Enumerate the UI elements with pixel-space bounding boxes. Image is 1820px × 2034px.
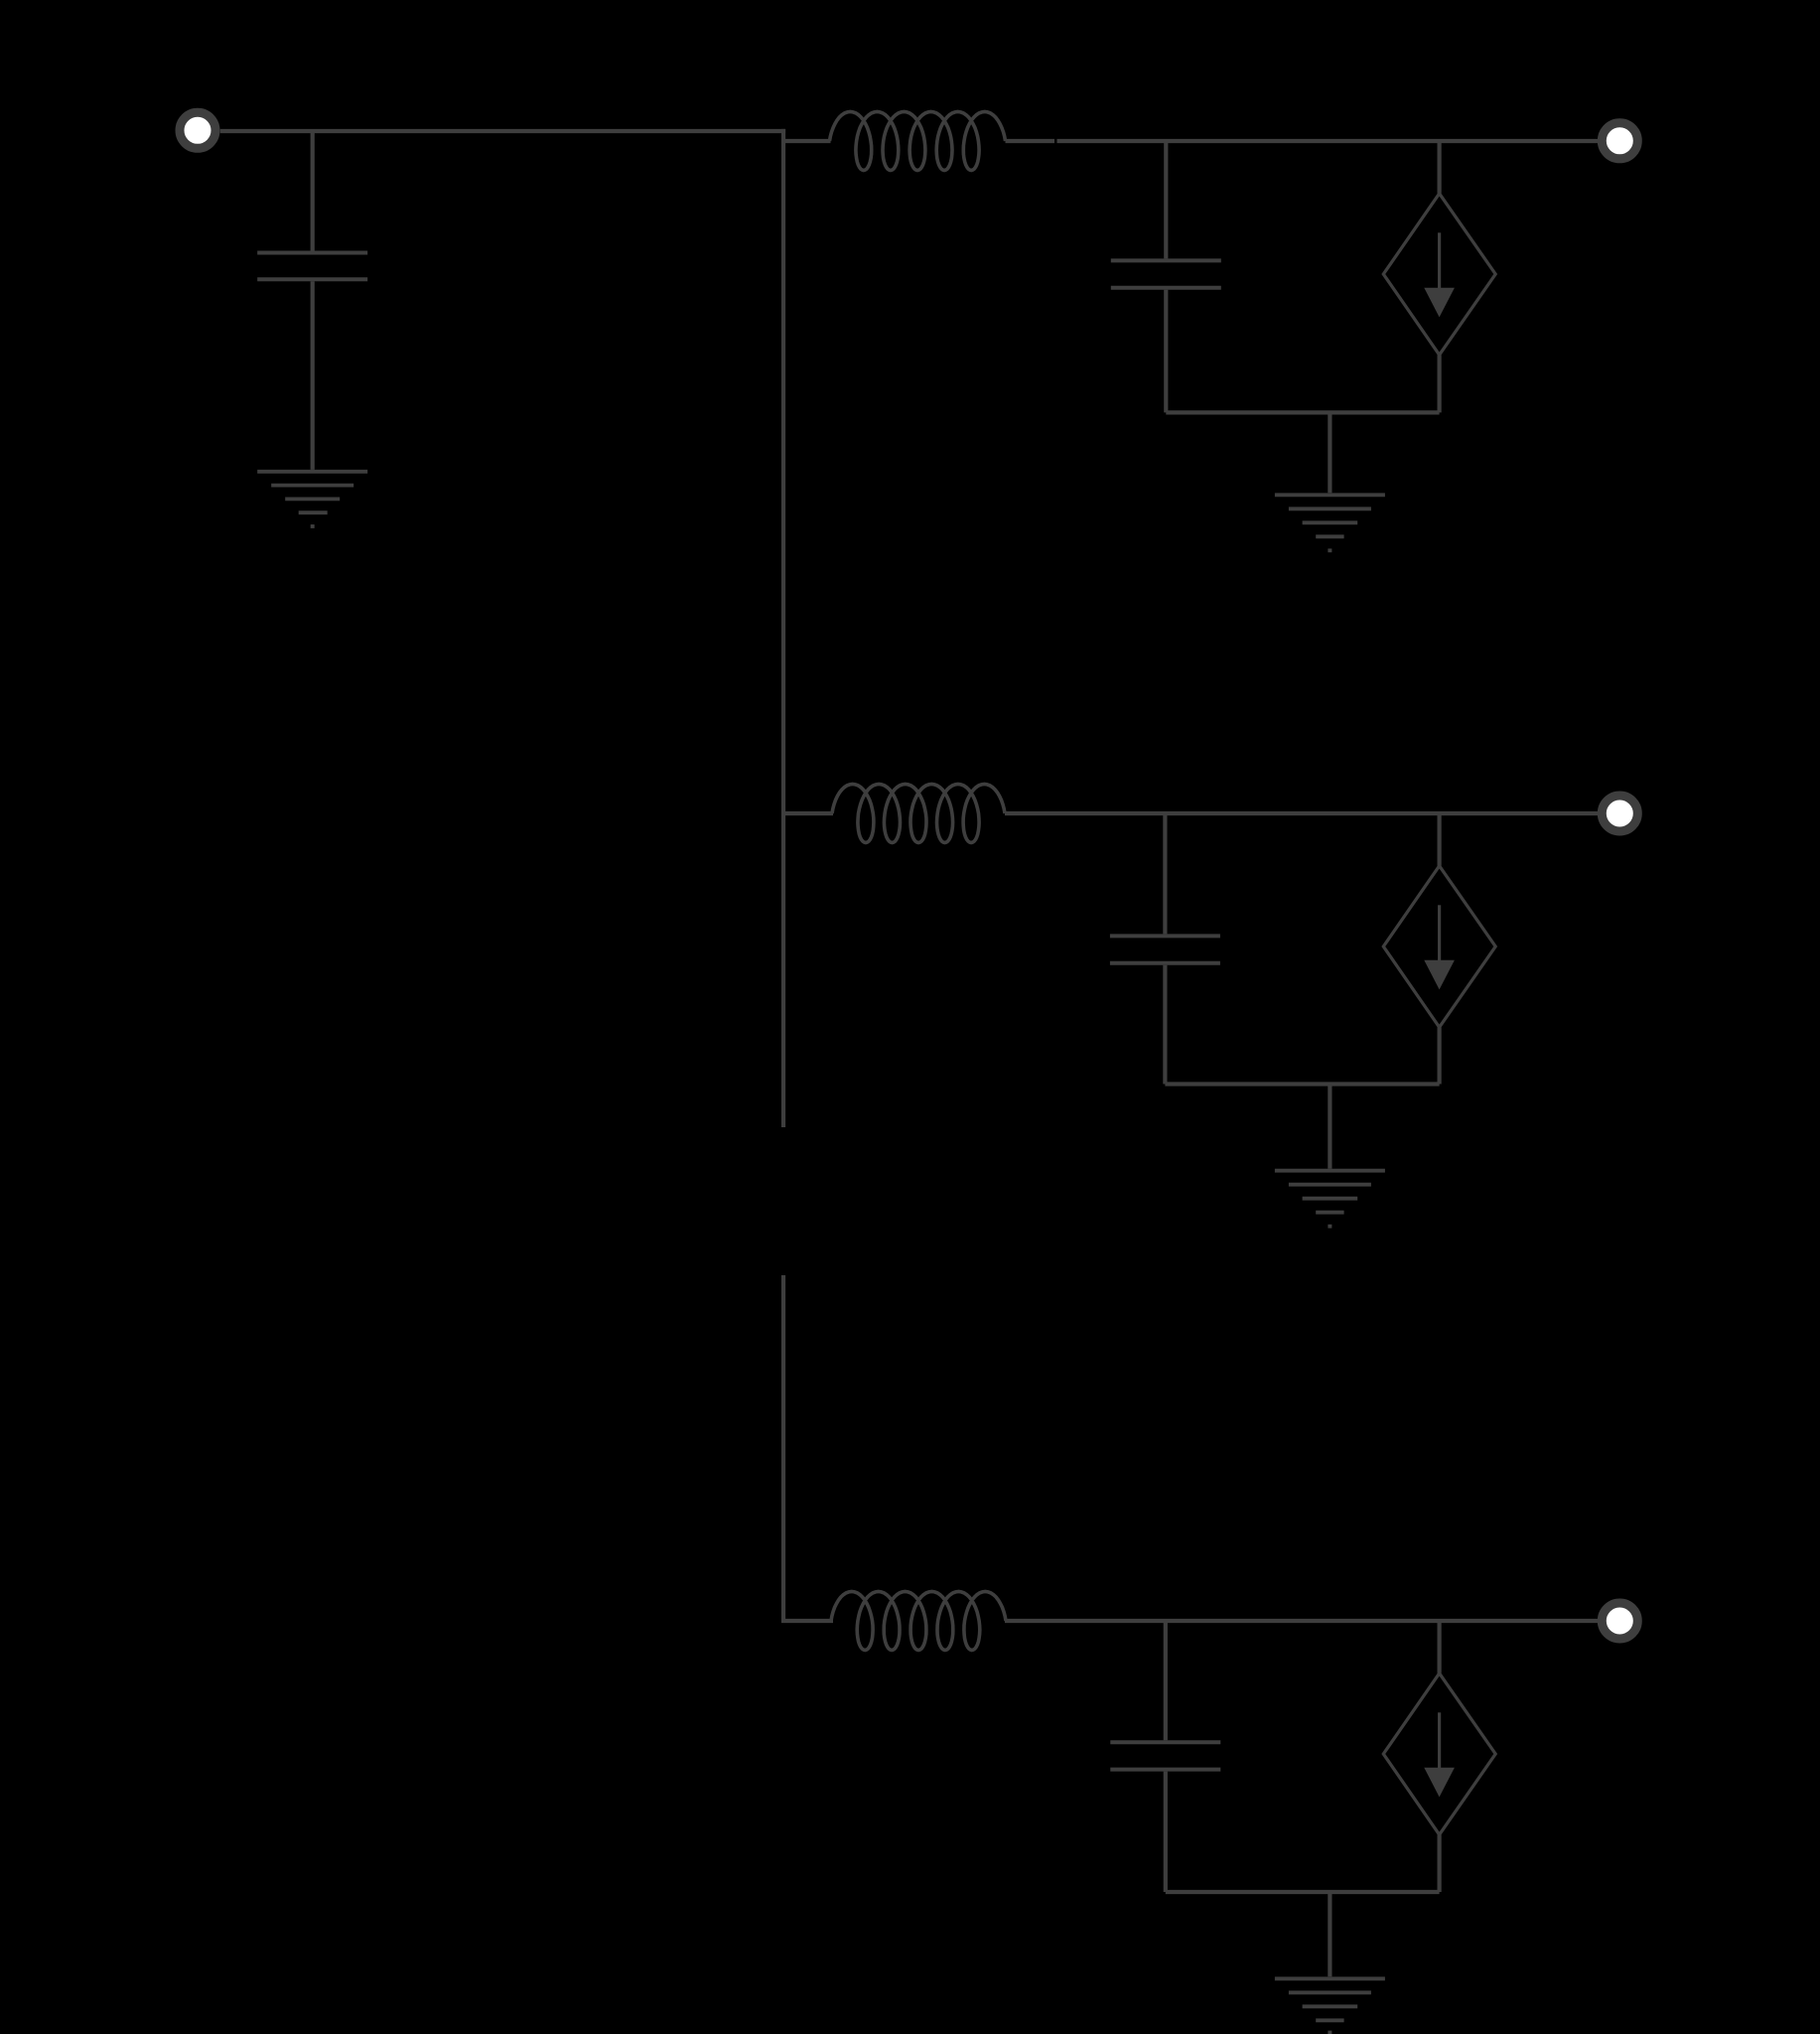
terminal out 2 bbox=[1602, 796, 1637, 831]
current source I1 diamond bbox=[1383, 194, 1495, 355]
wire row 1: inductor to gap bbox=[1006, 139, 1055, 143]
capacitor C2 bottom plate bbox=[1110, 961, 1220, 965]
inductor L1 bbox=[830, 112, 1006, 171]
wire row 3: inductor to terminal bbox=[1005, 1619, 1598, 1623]
capacitor C3 top lead bbox=[1164, 1621, 1168, 1740]
wire: capacitor C3 to current source I3 bottom node bbox=[1166, 1890, 1440, 1894]
current source I2 arrow bbox=[1424, 905, 1455, 989]
terminal out 1 bbox=[1602, 123, 1637, 159]
current source I1 top lead bbox=[1437, 141, 1441, 194]
current source I3 arrow bbox=[1424, 1712, 1455, 1797]
inductor L3 bbox=[831, 1592, 1006, 1651]
wire: input terminal to bus bbox=[220, 129, 785, 133]
wire row 1: gap to terminal bbox=[1057, 139, 1599, 143]
capacitor C1 top lead bbox=[1164, 141, 1168, 258]
terminal out 3 bbox=[1602, 1603, 1637, 1639]
capacitor C0 top plate bbox=[257, 251, 367, 255]
current source I3 diamond bbox=[1383, 1673, 1495, 1835]
current source I1 arrow bbox=[1424, 232, 1455, 317]
current source I1 bottom lead bbox=[1437, 355, 1441, 412]
capacitor C0 bottom plate bbox=[257, 277, 367, 281]
capacitor C0 bottom lead bbox=[311, 281, 315, 470]
wire row 2: inductor to terminal bbox=[1005, 811, 1598, 815]
wire: capacitor C2 to current source I2 bottom node bbox=[1165, 1082, 1439, 1086]
capacitor C2 bottom lead bbox=[1163, 965, 1167, 1085]
wire: bus lower segment to row 3 bbox=[783, 1275, 833, 1621]
capacitor C3 bottom plate bbox=[1110, 1768, 1220, 1772]
capacitor C2 top plate bbox=[1110, 934, 1220, 938]
capacitor C1 bottom lead bbox=[1164, 290, 1168, 413]
ground (row 1) bbox=[1275, 412, 1385, 550]
wire row 1: bus to inductor L1 bbox=[783, 139, 831, 143]
capacitor C0 top lead bbox=[311, 131, 315, 251]
current source I2 diamond bbox=[1383, 866, 1495, 1028]
wire: capacitor C1 to current source I1 bottom node bbox=[1166, 410, 1439, 414]
inductor L2 bbox=[832, 785, 1005, 843]
current source I3 top lead bbox=[1437, 1621, 1441, 1673]
ground (row 2) bbox=[1275, 1085, 1385, 1227]
wire: bus upper segment bbox=[781, 129, 785, 1127]
wire row 2: bus to inductor L2 bbox=[783, 811, 833, 815]
current source I2 top lead bbox=[1437, 813, 1441, 866]
ground (row 3) bbox=[1275, 1892, 1385, 2033]
capacitor C2 top lead bbox=[1163, 813, 1167, 934]
current source I3 bottom lead bbox=[1437, 1834, 1441, 1892]
capacitor C3 top plate bbox=[1110, 1740, 1220, 1744]
capacitor C1 top plate bbox=[1111, 258, 1221, 262]
ground (input) bbox=[257, 472, 367, 526]
capacitor C1 bottom plate bbox=[1111, 286, 1221, 290]
current source I2 bottom lead bbox=[1437, 1027, 1441, 1084]
terminal in P1 bbox=[180, 112, 215, 148]
capacitor C3 bottom lead bbox=[1164, 1772, 1168, 1892]
